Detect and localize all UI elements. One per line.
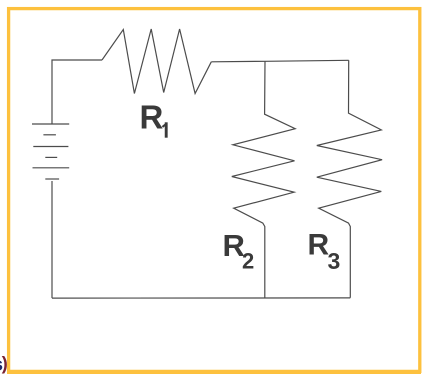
- svg-text:2: 2: [242, 249, 254, 274]
- svg-text:R: R: [140, 99, 164, 136]
- svg-text:R: R: [308, 229, 330, 262]
- svg-text:): ): [2, 354, 8, 374]
- svg-text:3: 3: [328, 248, 341, 274]
